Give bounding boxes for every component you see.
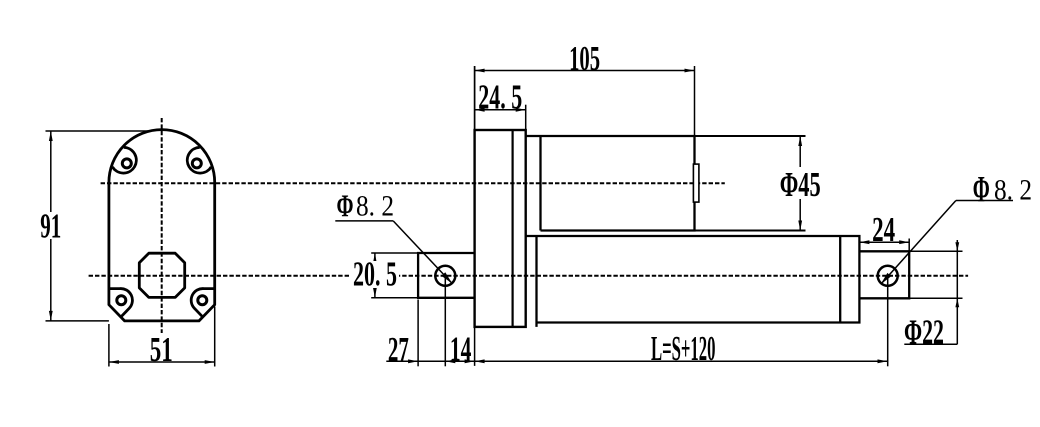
dimension 91 <box>46 131 150 321</box>
dimension 20.5 <box>371 253 418 298</box>
svg-text:Φ: Φ <box>973 170 990 211</box>
top-right screw boss arc <box>187 147 211 173</box>
svg-text:24: 24 <box>872 210 895 249</box>
arrows 27 <box>408 359 418 363</box>
centerline horizontal bottom (tube axis) <box>89 275 969 277</box>
flange internal line <box>511 130 513 327</box>
rod end hole <box>878 266 898 286</box>
svg-text:Φ: Φ <box>337 188 354 224</box>
top-left screw boss arc <box>112 147 136 173</box>
svg-text:14: 14 <box>450 329 472 368</box>
rod end block <box>859 251 909 298</box>
svg-text:Φ45: Φ45 <box>780 165 821 204</box>
motor cylinder outline <box>526 136 695 231</box>
dimension 24.5 <box>475 105 526 130</box>
bottom-right screw boss outline <box>191 289 214 317</box>
svg-text:91: 91 <box>40 207 61 246</box>
arrows L <box>475 359 485 363</box>
dimension 51 <box>109 307 215 367</box>
rear tab hole <box>435 266 455 286</box>
bottom-right screw hole <box>198 296 207 305</box>
centerline vertical (front view axis) <box>161 118 163 333</box>
top-right screw hole <box>192 159 201 168</box>
front view center octagon hole <box>139 253 184 297</box>
svg-text:51: 51 <box>150 330 173 369</box>
top-left screw hole <box>122 159 131 168</box>
rear mounting tab <box>418 253 475 298</box>
dimension phi45 <box>695 136 806 231</box>
leader phi8.2 left <box>335 221 452 283</box>
svg-text:105: 105 <box>569 39 600 78</box>
svg-text:27: 27 <box>388 330 409 369</box>
svg-text:8. 2: 8. 2 <box>356 190 394 223</box>
dimension phi22 <box>904 240 962 344</box>
svg-text:Φ22: Φ22 <box>904 313 944 352</box>
outer tube outline <box>526 236 860 327</box>
dimension 27 and 14 and L=S+120 baseline <box>386 66 887 366</box>
bottom-left screw boss outline <box>109 289 132 317</box>
dimension 24 (rod end) <box>859 239 909 252</box>
front view body outline <box>109 130 215 321</box>
svg-text:20. 5: 20. 5 <box>353 255 397 294</box>
leader phi8.2 right <box>881 201 1013 284</box>
svg-text:24. 5: 24. 5 <box>478 77 522 116</box>
svg-text:8. 2: 8. 2 <box>994 174 1032 207</box>
motor terminal rectangle <box>693 164 699 202</box>
bottom-left screw hole <box>117 296 126 305</box>
flange plate outline <box>475 130 526 327</box>
centerline horizontal top (motor axis) <box>101 182 725 184</box>
dimension 105 <box>475 66 695 136</box>
svg-text:L=S+120: L=S+120 <box>651 329 716 368</box>
arrows 14 <box>465 359 475 363</box>
